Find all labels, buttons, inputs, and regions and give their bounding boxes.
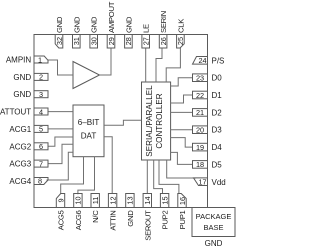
svg-text:10: 10 [74,196,83,204]
svg-text:27: 27 [142,37,151,45]
pin 23 [193,74,208,83]
svg-text:GND: GND [55,16,64,33]
svg-text:1: 1 [38,55,42,64]
pin 17 [194,178,208,187]
svg-text:ACG3: ACG3 [9,160,31,169]
svg-text:BASE: BASE [203,223,223,232]
svg-text:14: 14 [143,196,152,204]
svg-text:D3: D3 [212,126,223,135]
wire DAT to pin10 ACG6 [78,157,95,195]
svg-text:P/S: P/S [212,56,225,65]
svg-text:21: 21 [196,108,204,117]
wire pin7 ACG3 to DAT [48,144,73,163]
svg-text:GND: GND [90,16,99,33]
wire pin19 D4 to controller [171,138,193,148]
wire DAT to pin9 ACG5 [61,157,84,194]
pin 8 [34,177,48,186]
wire pin1 to op-amp input [48,60,73,75]
svg-text:SERIAL/PARALLEL: SERIAL/PARALLEL [145,85,154,157]
svg-text:6: 6 [39,142,43,151]
wire DAT to controller [104,120,142,125]
op-amp U1 [73,62,100,89]
svg-text:CLK: CLK [176,18,185,33]
svg-text:PACKAGE: PACKAGE [196,212,232,221]
svg-text:16: 16 [178,197,187,205]
pin 22 [193,91,208,100]
svg-text:PUP2: PUP2 [161,210,170,229]
wire pin26 SERIN to controller [156,48,162,82]
pin 30 [90,35,99,49]
svg-text:GND: GND [13,90,31,99]
svg-text:19: 19 [196,143,204,152]
svg-text:AMPOUT: AMPOUT [107,1,116,33]
svg-text:ATTIN: ATTIN [109,211,118,231]
wire pin18 D5 to controller [171,152,193,164]
wire pin27 LE to controller [145,48,147,82]
pin 10 [74,194,83,208]
svg-text:ACG5: ACG5 [57,210,66,230]
wire pin23 D0 to controller [171,78,193,86]
svg-text:ACG4: ACG4 [9,177,31,186]
svg-text:Vdd: Vdd [212,178,226,187]
pin 32 [55,35,64,49]
svg-text:11: 11 [91,197,100,205]
svg-text:ACG2: ACG2 [9,142,31,151]
wire controller to pin16 PUP1 [159,160,179,194]
wire op-amp output to pin29 [100,48,112,75]
svg-text:4: 4 [39,107,43,116]
svg-text:7: 7 [39,159,43,168]
pin 29 [107,35,116,49]
svg-text:6–BIT: 6–BIT [78,118,100,127]
pin 9 [56,194,65,208]
pin 1 [34,55,48,64]
pin 25 [176,35,185,49]
svg-text:SERIN: SERIN [159,11,168,33]
svg-text:18: 18 [196,160,204,169]
pin 24 [193,56,208,65]
svg-text:29: 29 [107,37,116,45]
svg-text:30: 30 [90,37,99,45]
svg-text:D2: D2 [212,108,223,117]
pin 6 [34,142,48,151]
pin 15 [160,194,169,208]
svg-text:9: 9 [56,198,65,202]
svg-text:D4: D4 [212,143,223,152]
wire controller to pin17 Vdd [167,160,196,178]
svg-text:12: 12 [108,196,117,204]
pin 11 [91,194,100,208]
svg-text:N/C: N/C [91,210,100,223]
svg-text:24: 24 [198,56,206,65]
pin 19 [193,143,208,152]
wire pin22 D1 to controller [171,95,193,103]
svg-text:GND: GND [124,16,133,33]
pin 2 [34,73,48,82]
pin 12 [108,194,117,208]
svg-text:26: 26 [159,37,168,45]
svg-text:PUP1: PUP1 [178,210,187,229]
svg-text:ATTOUT: ATTOUT [0,108,31,117]
pin 7 [34,159,48,168]
package base pad [192,208,235,237]
pin 31 [72,35,81,49]
svg-text:DAT: DAT [81,132,97,141]
IC body outline [34,35,208,208]
svg-text:31: 31 [72,37,81,45]
6-BIT DAT block [73,105,104,157]
wire controller to pin14 SEROUT [146,160,148,194]
svg-text:2: 2 [39,73,43,82]
wire pin5 ACG1 to DAT [48,128,73,130]
svg-text:ACG1: ACG1 [9,125,31,134]
pin 16 [178,194,187,208]
wire DAT to pin12 ATTIN [104,137,112,194]
svg-text:32: 32 [55,37,64,45]
svg-text:28: 28 [124,37,133,45]
svg-text:GND: GND [13,73,31,82]
pin 27 [142,35,151,49]
serial/parallel controller block [142,82,171,160]
svg-text:15: 15 [160,196,169,204]
svg-text:20: 20 [196,126,204,135]
svg-text:5: 5 [39,125,43,134]
svg-text:13: 13 [126,196,135,204]
pin 21 [193,108,208,117]
wire controller to pin15 PUP2 [154,160,163,194]
pin 18 [193,160,208,169]
wire pin21 D2 to controller [171,111,193,113]
svg-text:D1: D1 [212,91,223,100]
svg-text:22: 22 [196,91,204,100]
svg-text:AMPIN: AMPIN [6,56,32,65]
wire pin6 ACG2 to DAT [48,137,73,146]
pin 20 [193,126,208,135]
pin 14 [143,194,152,208]
wire pin25 CLK to controller [166,48,180,82]
svg-text:CONTROLLER: CONTROLLER [155,93,164,148]
svg-text:GND: GND [126,210,135,227]
wire pin20 D3 to controller [171,129,193,131]
svg-text:17: 17 [198,178,206,187]
svg-text:GND: GND [205,239,223,248]
svg-text:23: 23 [196,74,204,83]
svg-text:8: 8 [38,177,42,186]
svg-text:D0: D0 [212,74,223,83]
pin 4 [34,107,48,116]
wire pin4 ATTOUT to DAT [48,111,73,113]
svg-text:ACG6: ACG6 [74,210,83,230]
svg-text:3: 3 [39,90,43,99]
pin 13 [126,194,135,208]
svg-text:25: 25 [176,37,185,45]
pin 3 [34,90,48,99]
pin 28 [124,35,133,49]
pin 26 [159,35,168,49]
svg-text:LE: LE [142,24,151,33]
svg-text:D5: D5 [212,160,223,169]
svg-text:SEROUT: SEROUT [143,210,152,241]
pin 5 [34,125,48,134]
wire pin8 ACG4 to DAT [47,152,74,180]
svg-text:GND: GND [72,16,81,33]
